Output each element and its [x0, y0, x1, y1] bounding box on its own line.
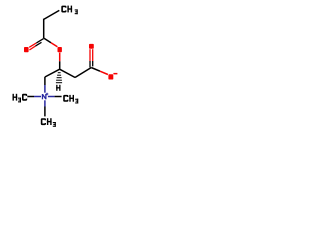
- right CH3 label subscript 3: [75, 99, 78, 100]
- O(-) label (red block): [108, 74, 113, 79]
- right CH3 label H: [69, 95, 70, 102]
- bottom CH3 label C: [41, 118, 46, 125]
- C1=O double bond inner line red half: [29, 46, 35, 50]
- N right bond black half: [55, 96, 62, 98]
- N left bond black half: [27, 96, 34, 98]
- O carbonyl label (left red block): [24, 47, 29, 52]
- wire bond CH2-C1 (vertical): [43, 19, 45, 38]
- N down bond black half: [44, 107, 46, 117]
- H3C label H: [13, 94, 14, 101]
- O carboxyl top label (red block): [89, 44, 94, 49]
- C5-O(-) bond black half: [91, 68, 100, 72]
- top CH3 label H: [67, 6, 68, 13]
- C1=O double bond outer line black half: [36, 38, 43, 43]
- H3C label C: [22, 94, 27, 101]
- C5-O(-) bond red half: [100, 71, 108, 74]
- O ester to C2 bond black half: [59, 61, 61, 69]
- O ester to C2 bond red half: [59, 53, 61, 62]
- C1-O ester bond black half: [44, 38, 51, 42]
- bottom CH3 label H: [47, 118, 48, 125]
- C5=O double bond right line black half: [92, 61, 94, 66]
- C5=O double bond left line red half: [89, 49, 91, 61]
- H3C label subscript 3: [18, 98, 21, 99]
- C2-C4 bond (down-right): [60, 69, 76, 77]
- C3-N bond black half: [44, 77, 46, 85]
- stereo H label: [56, 85, 57, 91]
- C3-N bond blue half: [44, 85, 46, 93]
- background: [0, 0, 130, 130]
- O(-) minus sign: [113, 73, 117, 75]
- top CH3 label subscript 3: [75, 9, 78, 10]
- O ester label (red block): [58, 47, 62, 52]
- top CH3 label C: [61, 6, 66, 13]
- wire bond CH3-CH2 (top diagonal): [44, 10, 60, 19]
- hash wedge dash 4: [56, 80, 62, 81]
- N+ label: [42, 94, 43, 99]
- N down bond blue half: [44, 100, 46, 106]
- N left bond blue half: [34, 96, 41, 98]
- C1-O ester bond red half: [51, 43, 57, 47]
- hash wedge dash 1: [58, 72, 61, 73]
- right CH3 label C: [63, 95, 68, 102]
- C1=O double bond inner line black half: [35, 42, 41, 46]
- C2-C3 bond (down-left): [45, 69, 60, 77]
- N+ plus sign: [46, 93, 49, 96]
- N right bond blue half: [48, 96, 55, 98]
- hash wedge dash 3: [57, 77, 62, 78]
- bottom CH3 label subscript 3: [53, 122, 56, 123]
- C5=O double bond left line black half: [89, 61, 91, 67]
- C5=O double bond right line red half: [92, 49, 94, 61]
- C4-C5 bond: [75, 68, 91, 78]
- C1=O double bond outer line red half: [29, 43, 36, 47]
- hash wedge dash 2: [57, 75, 61, 76]
- hash wedge dash 5: [56, 82, 62, 83]
